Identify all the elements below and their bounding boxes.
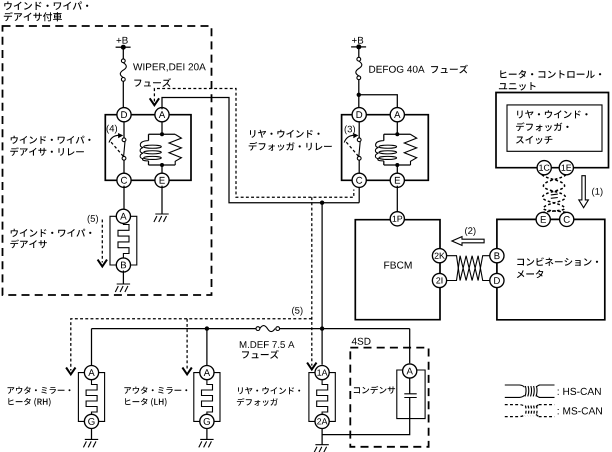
label heater control unit line2 xyxy=(499,82,536,90)
wire +B to fuse F1 xyxy=(122,47,124,59)
RH mirror heater resistor xyxy=(86,380,97,415)
relay K2 pin A xyxy=(390,108,404,122)
fuse F2 DEFOG 40A xyxy=(357,57,361,61)
label: with window wiper de-icer line1 xyxy=(4,1,88,10)
wiper de-icer resistor element xyxy=(118,222,129,260)
wire relay K2 E to FBCM 1P xyxy=(396,186,398,212)
wire junction to rear defogger 1A xyxy=(321,329,323,365)
ground below RH heater xyxy=(83,439,98,447)
4SD dashed box xyxy=(350,348,428,447)
relay K1 actuation arrow (4) xyxy=(109,135,119,142)
wire relay K1 pin A to main feed bus xyxy=(162,98,359,203)
relay K1 resistor xyxy=(169,134,181,165)
label fuse F1 line1 xyxy=(133,63,206,71)
relay K2 actuation arrow (3) xyxy=(344,135,354,142)
wire +B to fuse F2 xyxy=(358,47,360,57)
wiper de-icer pin B xyxy=(116,258,130,272)
relay K1 coil L1 xyxy=(140,141,148,161)
FBCM pin 1P xyxy=(390,212,404,226)
relay K1 pin C xyxy=(117,173,131,187)
wire fuse F1 to relay pin D xyxy=(122,81,124,109)
label mirror heater LH line1 xyxy=(124,387,187,394)
condenser box xyxy=(397,370,425,419)
condenser pin A xyxy=(403,364,417,378)
fuse F3 M.DEF 7.5A xyxy=(256,327,260,331)
relay K1 switch alternate position (dashed) xyxy=(111,142,124,157)
HCU pin 1E xyxy=(559,161,573,175)
relay K1 wiper de-icer relay box xyxy=(105,115,191,181)
HS-CAN twisted pair wire 2 xyxy=(446,256,489,281)
label fuse F3 line1 xyxy=(240,341,295,348)
relay K2 rear window defogger relay box xyxy=(342,115,429,181)
legend MS-CAN text xyxy=(558,407,602,414)
HS-CAN twisted pair wire 1 xyxy=(446,256,489,281)
rear defogger box xyxy=(309,373,335,422)
FBCM box xyxy=(355,220,440,320)
label defogger switch line2 xyxy=(516,122,569,131)
junction LH heater xyxy=(205,326,209,330)
relay K1 junction dots xyxy=(160,132,164,136)
LH heater pin A xyxy=(200,366,214,380)
label heater control unit line1 xyxy=(500,70,601,79)
LH heater ground wire xyxy=(206,428,208,439)
label wiper de-icer line2 xyxy=(10,240,47,249)
main horizontal feed wire xyxy=(92,329,410,366)
main feed vertical wire xyxy=(321,203,323,329)
label mirror heater LH line2 xyxy=(125,398,166,407)
ground below rear defogger xyxy=(314,445,329,452)
meter pin C xyxy=(560,212,574,226)
relay K1 pin A xyxy=(155,108,169,122)
rear defogger pin 2A xyxy=(315,414,329,428)
label relay K1 line1 xyxy=(11,136,91,144)
relay K2 pin C xyxy=(352,173,366,187)
relay K2 switch wire from D xyxy=(358,120,360,138)
relay K2 pin D xyxy=(352,108,366,122)
wiper de-icer heater element box xyxy=(110,216,137,265)
reference (1) arrow xyxy=(592,188,602,197)
node +B (defogger feed) xyxy=(352,37,363,44)
RH heater ground wire xyxy=(91,428,93,439)
legend MS-CAN symbol xyxy=(505,405,555,417)
FBCM pin 2K xyxy=(432,249,446,263)
label fuse F3 line2 xyxy=(242,350,279,359)
RH heater pin A xyxy=(84,366,98,380)
relay K2 switch movable contact xyxy=(359,142,360,157)
MS-CAN braid center detail xyxy=(551,194,558,198)
relay K2 pin E xyxy=(390,173,404,187)
MS-CAN twisted pair wire 1 xyxy=(542,175,565,213)
label rear defogger line2 xyxy=(237,398,278,406)
ground below LH heater xyxy=(199,439,214,447)
rear defogger pin 1A xyxy=(315,366,329,380)
RH mirror heater box xyxy=(78,373,104,422)
label: with window wiper de-icer line2 xyxy=(4,12,62,21)
LH mirror heater resistor xyxy=(202,380,213,415)
ground below relay K1 xyxy=(154,214,169,222)
wire relay K2 pin C down to bus xyxy=(358,186,360,203)
node +B (wiper de-icer feed) xyxy=(117,37,128,44)
label rear defogger line1 xyxy=(238,387,300,394)
label fuse F2 fuse xyxy=(431,65,468,74)
relay K2 switch bottom contact xyxy=(357,156,361,160)
RH heater pin G xyxy=(84,414,98,428)
reference (2) arrow xyxy=(465,227,475,236)
relay K1 wire switch to pin C xyxy=(123,160,125,175)
ground below wiper de-icer xyxy=(115,284,130,292)
combination meter box xyxy=(497,219,605,319)
label defogger switch line3 xyxy=(516,136,552,144)
control line (5) horizontal xyxy=(71,319,312,371)
LH mirror heater box xyxy=(194,373,220,422)
wire pin B to ground xyxy=(122,271,124,285)
junction main feed bottom xyxy=(320,326,324,330)
wire relay K1 C to wiper de-icer A xyxy=(123,186,125,211)
wire fuse F2 to relay K2 D and A xyxy=(359,80,398,110)
meter pin D xyxy=(490,273,504,287)
label mirror heater RH line1 xyxy=(8,387,71,394)
relay K2 wire switch to pin C xyxy=(358,160,360,175)
meter pin E xyxy=(536,212,550,226)
relay K1 coil branch top wire xyxy=(149,120,176,175)
arrow to RH mirror heater xyxy=(66,368,75,375)
relay K1 switch bottom contact xyxy=(122,156,126,160)
relay K1 pin D xyxy=(117,108,131,122)
wire relay K1 E to ground xyxy=(161,186,163,214)
control line branch to rear defogger xyxy=(311,197,313,365)
wiper de-icer pin A xyxy=(116,209,130,223)
relay K2 switch top contact xyxy=(357,138,361,142)
relay K1 switch wire from D xyxy=(123,120,125,138)
arrow to LH mirror heater xyxy=(182,368,191,375)
relay K2 coil L2 xyxy=(375,141,383,161)
fuse F1 WIPER,DEI 20A xyxy=(121,59,125,63)
label defogger switch line1 xyxy=(517,110,587,118)
relay K2 junction dots xyxy=(395,132,399,136)
label relay K2 line1 xyxy=(250,130,320,138)
FBCM pin 2I xyxy=(432,273,446,287)
relay K1 switch movable contact (closed) xyxy=(124,142,125,157)
label combination meter line1 xyxy=(517,257,598,266)
legend HS-CAN symbol xyxy=(505,385,555,397)
rear window defogger switch inner box xyxy=(507,105,602,151)
label fuse F1 line2 fuse xyxy=(134,78,171,87)
wire condenser to ground junction xyxy=(322,419,410,435)
reference (5) label bottom xyxy=(292,307,302,316)
label wiper de-icer line1 xyxy=(11,229,92,237)
rear defogger resistor xyxy=(317,380,328,415)
label condenser xyxy=(354,386,395,394)
rear defogger ground wire xyxy=(321,428,323,444)
junction main feed xyxy=(320,201,324,205)
reference (5) arrow at wiper de-icer xyxy=(88,215,98,224)
label relay K2 line2 xyxy=(249,142,332,151)
label FBCM xyxy=(384,262,411,269)
relay K2 switch alternate position xyxy=(346,142,359,157)
MS-CAN twisted pair wire 2 xyxy=(543,175,566,213)
label combination meter line2 xyxy=(517,270,544,278)
HCU pin 1C xyxy=(537,161,551,175)
label fuse F2 xyxy=(369,66,424,73)
optional equipment dashed box xyxy=(3,26,212,295)
relay K1 switch top contact xyxy=(122,138,126,142)
relay K2 coil branch wires xyxy=(384,120,411,175)
relay K2 resistor xyxy=(404,134,416,165)
meter pin B xyxy=(490,249,504,263)
control line arrow into relay K1 pin A xyxy=(150,98,159,105)
label relay K1 line2 xyxy=(10,147,84,156)
heater control unit box xyxy=(496,93,609,168)
label 4SD xyxy=(352,338,371,345)
capacitor C1 xyxy=(409,378,411,419)
LH heater pin G xyxy=(200,414,214,428)
legend HS-CAN text xyxy=(558,388,601,395)
relay K1 pin E xyxy=(155,173,169,187)
label mirror heater RH line2 xyxy=(8,398,50,407)
